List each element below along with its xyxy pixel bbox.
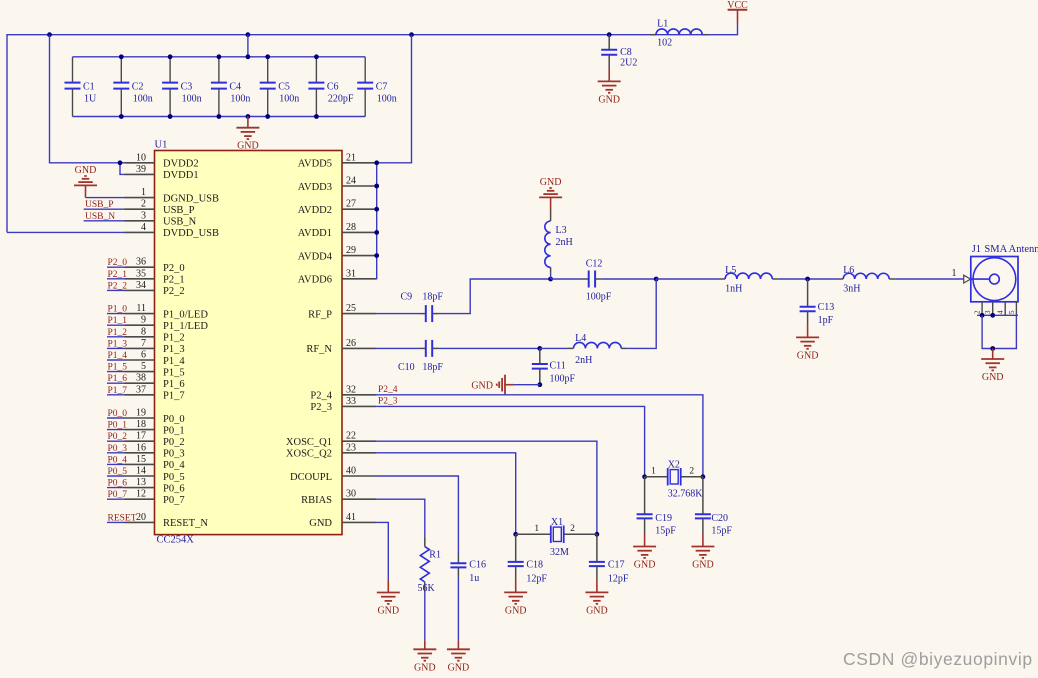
svg-text:P1_6: P1_6 xyxy=(108,374,128,384)
pin 41 GND xyxy=(309,512,376,529)
svg-text:GND: GND xyxy=(309,518,332,529)
wire DVDD1 branch xyxy=(120,163,125,175)
svg-text:7: 7 xyxy=(141,338,146,349)
svg-text:4: 4 xyxy=(997,310,1005,314)
inductor L4 2nH xyxy=(568,333,628,366)
svg-text:P2_1: P2_1 xyxy=(108,270,128,280)
pin 36 P2_0 xyxy=(125,257,185,274)
wire R1 to ground xyxy=(424,592,426,641)
svg-text:36: 36 xyxy=(136,257,146,268)
svg-text:P0_5: P0_5 xyxy=(163,472,185,483)
svg-text:X1: X1 xyxy=(551,517,563,528)
pin 39 DVDD1 xyxy=(125,164,199,181)
svg-text:17: 17 xyxy=(136,431,146,442)
pin 40 DCOUPL xyxy=(290,466,376,483)
svg-text:C19: C19 xyxy=(655,513,672,524)
svg-text:100pF: 100pF xyxy=(550,373,576,384)
pin 11 P1_0/LED xyxy=(125,303,209,320)
wire XOSC_Q2 to X1 xyxy=(376,453,516,535)
svg-text:P2_1: P2_1 xyxy=(163,275,185,286)
connector J1 SMA Antenna xyxy=(952,244,1038,315)
svg-text:2nH: 2nH xyxy=(575,355,592,366)
svg-text:2: 2 xyxy=(570,524,575,534)
wire net P0_6 xyxy=(107,487,125,489)
wire P2_3 to X2 xyxy=(376,406,645,476)
wire AVDD bus xyxy=(376,35,412,279)
svg-text:VCC: VCC xyxy=(727,0,748,11)
wire net RESET xyxy=(107,521,125,523)
svg-text:3nH: 3nH xyxy=(843,284,860,295)
svg-text:26: 26 xyxy=(346,338,356,349)
pin 25 RF_P xyxy=(308,303,376,320)
pin 12 P0_7 xyxy=(125,489,185,506)
junction cap bank bottom xyxy=(168,114,173,119)
svg-text:X2: X2 xyxy=(668,459,680,470)
svg-text:AVDD2: AVDD2 xyxy=(298,205,332,216)
junction C11 top node xyxy=(537,346,542,351)
crystal X2 32.768K xyxy=(645,459,704,499)
svg-text:P2_2: P2_2 xyxy=(163,286,185,297)
svg-text:P0_1: P0_1 xyxy=(108,421,128,431)
pin 26 RF_N xyxy=(306,338,376,355)
junction AVDD bus xyxy=(374,160,379,165)
svg-text:L6: L6 xyxy=(843,265,854,276)
svg-text:102: 102 xyxy=(657,38,672,49)
wire P2_4 to X2 xyxy=(376,395,703,477)
svg-text:C11: C11 xyxy=(550,361,566,372)
svg-text:P0_5: P0_5 xyxy=(108,467,128,477)
svg-text:2: 2 xyxy=(141,199,146,210)
ground for L3 xyxy=(539,177,562,209)
svg-text:19: 19 xyxy=(136,408,146,419)
svg-text:14: 14 xyxy=(136,466,146,477)
svg-text:100n: 100n xyxy=(279,94,299,105)
capacitor C11 100pF xyxy=(532,348,576,384)
ground for J1 xyxy=(981,349,1004,384)
svg-text:P0_6: P0_6 xyxy=(108,479,128,489)
svg-text:C1: C1 xyxy=(83,82,95,93)
svg-text:USB_P: USB_P xyxy=(85,200,114,210)
svg-text:100n: 100n xyxy=(182,94,202,105)
svg-text:15: 15 xyxy=(136,454,146,465)
pin 23 XOSC_Q2 xyxy=(286,442,376,459)
svg-text:6: 6 xyxy=(141,350,146,361)
svg-text:C18: C18 xyxy=(526,559,543,570)
svg-text:USB_N: USB_N xyxy=(163,217,197,228)
pin 14 P0_5 xyxy=(125,466,185,483)
svg-text:12pF: 12pF xyxy=(608,573,629,584)
svg-text:12: 12 xyxy=(136,489,146,500)
svg-text:XOSC_Q2: XOSC_Q2 xyxy=(286,449,332,460)
svg-text:18pF: 18pF xyxy=(422,292,443,303)
wire XOSC_Q1 to X1 xyxy=(376,441,597,534)
capacitor C19 15pF xyxy=(637,477,677,537)
svg-text:C4: C4 xyxy=(229,82,241,93)
svg-text:2: 2 xyxy=(689,467,694,477)
junction AVDD bus xyxy=(374,230,379,235)
wire SMA shield to ground xyxy=(982,315,1016,348)
pin 19 P0_0 xyxy=(125,408,185,425)
svg-text:RF_P: RF_P xyxy=(308,309,332,320)
svg-text:100n: 100n xyxy=(133,94,153,105)
svg-text:P0_4: P0_4 xyxy=(163,460,185,471)
wire RF_P to C9 xyxy=(376,313,420,315)
svg-text:C17: C17 xyxy=(608,559,625,570)
inductor L3 2nH xyxy=(545,210,573,273)
capacitor C6 220pF xyxy=(308,57,354,117)
ground for C17 xyxy=(585,580,608,617)
svg-text:GND: GND xyxy=(586,605,608,616)
svg-text:1U: 1U xyxy=(84,94,97,105)
svg-text:C5: C5 xyxy=(278,82,290,93)
svg-text:RBIAS: RBIAS xyxy=(301,495,332,506)
svg-text:C16: C16 xyxy=(469,559,486,570)
capacitor C7 100n xyxy=(357,57,397,117)
pin 5 P1_5 xyxy=(125,361,185,378)
wire L4 to antenna node riser xyxy=(627,279,656,348)
svg-text:38: 38 xyxy=(136,373,146,384)
svg-text:P0_6: P0_6 xyxy=(163,483,185,494)
junction SMA ground tap xyxy=(990,346,995,351)
pin 15 P0_4 xyxy=(125,454,186,471)
svg-text:C13: C13 xyxy=(818,302,835,313)
svg-text:GND: GND xyxy=(505,605,527,616)
svg-text:GND: GND xyxy=(75,165,97,176)
junction AVDD bus xyxy=(374,184,379,189)
pin 30 RBIAS xyxy=(301,489,376,506)
svg-text:P0_2: P0_2 xyxy=(108,432,128,442)
svg-text:RESET_N: RESET_N xyxy=(163,518,208,529)
pin 6 P1_4 xyxy=(125,350,186,367)
wire C16 to ground xyxy=(457,577,459,641)
svg-text:AVDD5: AVDD5 xyxy=(298,159,332,170)
pin 18 P0_1 xyxy=(125,419,185,436)
ground for C18 xyxy=(504,580,527,617)
svg-text:C8: C8 xyxy=(620,47,632,58)
junction L3 / match line xyxy=(548,277,553,282)
capacitor C4 100n xyxy=(211,57,251,117)
wire cap bank bottom rail xyxy=(73,116,366,118)
svg-text:29: 29 xyxy=(346,245,356,256)
wire net P0_3 xyxy=(107,452,125,454)
power VCC xyxy=(727,0,748,23)
junction top rail / cap bank feed xyxy=(246,32,251,37)
svg-text:P1_3: P1_3 xyxy=(108,339,128,349)
svg-text:P0_2: P0_2 xyxy=(163,437,185,448)
svg-text:P1_5: P1_5 xyxy=(108,363,128,373)
wire net P1_7 xyxy=(107,394,125,396)
capacitor C13 1pF xyxy=(800,279,835,326)
svg-text:AVDD3: AVDD3 xyxy=(298,182,332,193)
svg-text:P1_1/LED: P1_1/LED xyxy=(163,321,208,332)
junction SMA pin3 xyxy=(990,313,995,318)
ground for R1 xyxy=(413,641,436,674)
junction cap bank ground tap xyxy=(246,114,251,119)
svg-text:1: 1 xyxy=(952,268,957,279)
pin 4 DVDD_USB xyxy=(125,222,220,239)
svg-text:P1_4: P1_4 xyxy=(163,356,185,367)
capacitor C16 1u xyxy=(450,553,486,584)
wire cap bank top rail xyxy=(73,56,366,58)
svg-text:GND: GND xyxy=(982,372,1004,383)
svg-text:35: 35 xyxy=(136,268,146,279)
svg-text:P2_4: P2_4 xyxy=(310,391,332,402)
svg-text:GND: GND xyxy=(448,662,470,673)
ground for pin 41 xyxy=(377,580,400,617)
svg-text:P0_3: P0_3 xyxy=(163,449,185,460)
svg-text:P1_7: P1_7 xyxy=(108,386,128,396)
pin 37 P1_7 xyxy=(125,384,185,401)
svg-text:32M: 32M xyxy=(550,547,569,558)
wire net P2_2 xyxy=(107,289,125,291)
svg-text:C7: C7 xyxy=(376,82,388,93)
resistor R1 56K xyxy=(418,537,441,594)
svg-text:23: 23 xyxy=(346,442,356,453)
junction cap bank bottom xyxy=(119,114,124,119)
ground for C13 xyxy=(796,325,819,362)
junction X2 pin2 xyxy=(701,474,706,479)
svg-text:16: 16 xyxy=(136,442,146,453)
svg-text:P0_0: P0_0 xyxy=(108,409,128,419)
svg-text:P2_4: P2_4 xyxy=(378,385,398,395)
svg-text:P0_7: P0_7 xyxy=(108,490,128,500)
svg-text:1pF: 1pF xyxy=(818,315,834,326)
svg-text:11: 11 xyxy=(136,303,146,314)
svg-text:C12: C12 xyxy=(586,258,603,269)
junction X1 pin2 xyxy=(595,532,600,537)
pin 2 USB_P xyxy=(125,199,195,216)
svg-text:2U2: 2U2 xyxy=(620,58,637,69)
svg-text:1u: 1u xyxy=(469,573,479,584)
svg-text:27: 27 xyxy=(346,199,356,210)
svg-text:RESET: RESET xyxy=(108,513,137,523)
svg-text:15pF: 15pF xyxy=(655,525,676,536)
junction SMA pin2 xyxy=(980,313,985,318)
pin 34 P2_2 xyxy=(125,280,185,297)
svg-text:1: 1 xyxy=(534,524,539,534)
svg-text:24: 24 xyxy=(346,176,356,187)
pin 31 AVDD6 xyxy=(298,268,376,285)
svg-text:P1_2: P1_2 xyxy=(163,333,185,344)
junction X2 pin1 xyxy=(642,474,647,479)
svg-text:L4: L4 xyxy=(575,333,586,344)
svg-text:P2_3: P2_3 xyxy=(378,397,398,407)
svg-text:P0_3: P0_3 xyxy=(108,444,128,454)
wire net P0_2 xyxy=(107,440,125,442)
wire net P1_3 xyxy=(107,347,125,349)
junction AVDD bus xyxy=(374,253,379,258)
wire C12 to antenna node xyxy=(602,278,656,280)
junction top rail / AVDD feed xyxy=(409,32,414,37)
ground for DGND_USB xyxy=(74,165,97,197)
capacitor C5 100n xyxy=(260,57,300,117)
capacitor C1 1U xyxy=(65,57,98,117)
svg-text:C10: C10 xyxy=(398,362,415,373)
svg-text:J1: J1 xyxy=(972,244,981,255)
svg-text:21: 21 xyxy=(346,152,356,163)
pin 13 P0_6 xyxy=(125,477,185,494)
ground for C8 xyxy=(598,68,621,105)
svg-text:100n: 100n xyxy=(230,94,250,105)
wire net P2_1 xyxy=(107,278,125,280)
wire DVDD_USB from left rail xyxy=(7,231,125,233)
wire antenna node to L5 xyxy=(656,278,719,280)
inductor L6 3nH xyxy=(837,265,895,295)
svg-text:C20: C20 xyxy=(711,513,728,524)
capacitor C18 12pF xyxy=(508,534,548,584)
svg-text:GND: GND xyxy=(598,94,620,105)
svg-text:XOSC_Q1: XOSC_Q1 xyxy=(286,437,332,448)
svg-text:56K: 56K xyxy=(418,583,436,594)
capacitor C12 100pF xyxy=(582,258,612,302)
pin 29 AVDD4 xyxy=(298,245,376,262)
svg-text:25: 25 xyxy=(346,303,356,314)
svg-text:C2: C2 xyxy=(132,82,144,93)
svg-text:L3: L3 xyxy=(556,225,567,236)
wire net P0_0 xyxy=(107,417,125,419)
pin 16 P0_3 xyxy=(125,442,185,459)
svg-text:34: 34 xyxy=(136,280,146,291)
wire DVDD2/DVDD1 from rail xyxy=(50,35,125,163)
svg-text:39: 39 xyxy=(136,164,146,175)
svg-text:GND: GND xyxy=(692,560,714,571)
inductor L1 102 xyxy=(650,19,708,49)
svg-text:12pF: 12pF xyxy=(526,573,547,584)
pin 22 XOSC_Q1 xyxy=(286,431,376,448)
svg-text:9: 9 xyxy=(141,315,146,326)
svg-text:P1_0: P1_0 xyxy=(108,305,128,315)
svg-text:L5: L5 xyxy=(725,265,736,276)
capacitor C2 100n xyxy=(113,57,153,117)
svg-text:C3: C3 xyxy=(181,82,193,93)
junction cap bank top xyxy=(217,54,222,59)
svg-text:2nH: 2nH xyxy=(556,237,573,248)
svg-text:P2_0: P2_0 xyxy=(163,263,185,274)
wire DCOUPL to C16 xyxy=(376,476,458,553)
pin 10 DVDD2 xyxy=(125,152,199,169)
wire net P1_2 xyxy=(107,336,125,338)
svg-text:1nH: 1nH xyxy=(725,284,742,295)
wire net P1_0 xyxy=(107,313,125,315)
svg-text:100n: 100n xyxy=(377,94,397,105)
svg-text:100pF: 100pF xyxy=(586,292,612,303)
svg-text:GND: GND xyxy=(471,380,493,391)
svg-text:U1: U1 xyxy=(155,140,168,151)
ground for C19 xyxy=(633,534,656,571)
capacitor C3 100n xyxy=(162,57,202,117)
pin 27 AVDD2 xyxy=(298,199,376,216)
wire USB_N stub xyxy=(84,220,125,222)
junction C11 bottom xyxy=(537,382,542,387)
wire L3 to match line xyxy=(550,273,552,279)
svg-text:DVDD_USB: DVDD_USB xyxy=(163,228,219,239)
svg-text:P2_2: P2_2 xyxy=(108,281,128,291)
wire USB_P stub xyxy=(84,208,125,210)
junction cap bank bottom xyxy=(314,114,319,119)
svg-text:P1_2: P1_2 xyxy=(108,328,128,338)
junction cap bank top xyxy=(265,54,270,59)
svg-text:4: 4 xyxy=(141,222,146,233)
svg-text:32: 32 xyxy=(346,384,356,395)
svg-text:3: 3 xyxy=(141,210,146,221)
junction top rail / DVDD feed xyxy=(47,32,52,37)
svg-text:13: 13 xyxy=(136,477,146,488)
wire VCC top rail xyxy=(7,23,738,232)
junction node DVDD xyxy=(118,160,123,165)
pin 1 DGND_USB xyxy=(125,187,220,204)
pin 38 P1_6 xyxy=(125,373,185,390)
wire net P0_7 xyxy=(107,498,125,500)
svg-text:CSDN @biyezuopinvip: CSDN @biyezuopinvip xyxy=(843,649,1033,669)
pin 17 P0_2 xyxy=(125,431,185,448)
svg-text:40: 40 xyxy=(346,466,356,477)
junction top rail / C8 xyxy=(607,32,612,37)
pin 21 AVDD5 xyxy=(298,152,376,169)
svg-text:P2_3: P2_3 xyxy=(310,402,332,413)
junction AVDD bus xyxy=(374,207,379,212)
svg-text:30: 30 xyxy=(346,489,356,500)
wire C9 to RF match line xyxy=(439,279,551,314)
capacitor C20 15pF xyxy=(695,477,733,537)
svg-text:AVDD1: AVDD1 xyxy=(298,228,332,239)
pin 24 AVDD3 xyxy=(298,176,376,193)
svg-text:P1_0/LED: P1_0/LED xyxy=(163,309,208,320)
crystal X1 32M xyxy=(516,517,597,558)
pin 7 P1_3 xyxy=(125,338,185,355)
svg-text:DCOUPL: DCOUPL xyxy=(290,472,332,483)
svg-text:USB_N: USB_N xyxy=(85,212,115,222)
capacitor C17 12pF xyxy=(589,534,629,584)
pin 3 USB_N xyxy=(125,210,197,227)
svg-text:P0_1: P0_1 xyxy=(163,425,185,436)
svg-text:37: 37 xyxy=(136,384,146,395)
svg-text:P0_4: P0_4 xyxy=(108,455,128,465)
svg-text:P1_4: P1_4 xyxy=(108,351,128,361)
svg-text:GND: GND xyxy=(540,177,562,188)
wire net P0_4 xyxy=(107,463,125,465)
junction cap bank feed top xyxy=(246,54,251,59)
svg-text:RF_N: RF_N xyxy=(306,344,332,355)
svg-text:10: 10 xyxy=(136,152,146,163)
svg-text:P0_7: P0_7 xyxy=(163,495,185,506)
svg-text:P1_3: P1_3 xyxy=(163,344,185,355)
wire C11 node to L4 xyxy=(540,347,568,349)
wire net P0_5 xyxy=(107,475,125,477)
svg-text:1: 1 xyxy=(651,467,656,477)
capacitor C9 18pF xyxy=(401,292,444,323)
svg-text:GND: GND xyxy=(377,606,399,617)
wire C11 to ground xyxy=(514,384,540,386)
svg-text:AVDD4: AVDD4 xyxy=(298,251,333,262)
svg-text:20: 20 xyxy=(136,512,146,523)
svg-text:2: 2 xyxy=(974,310,982,314)
svg-text:31: 31 xyxy=(346,268,356,279)
svg-text:P2_0: P2_0 xyxy=(108,258,128,268)
svg-text:C9: C9 xyxy=(401,292,413,303)
wire DGND_USB stub xyxy=(86,197,125,199)
svg-text:18pF: 18pF xyxy=(422,362,443,373)
svg-text:15pF: 15pF xyxy=(711,525,732,536)
wire RF_N to C10 xyxy=(376,347,420,349)
wire net P0_1 xyxy=(107,429,125,431)
wire C10 to C11 node xyxy=(439,347,540,349)
ground for C20 xyxy=(691,534,714,571)
junction antenna node xyxy=(654,277,659,282)
svg-text:5: 5 xyxy=(1008,310,1016,314)
svg-text:8: 8 xyxy=(141,326,146,337)
wire net P2_0 xyxy=(107,266,125,268)
wire L6 to antenna connector xyxy=(895,278,963,280)
